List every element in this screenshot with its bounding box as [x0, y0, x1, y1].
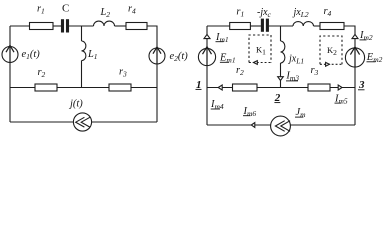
svg-text:r3: r3: [119, 67, 127, 79]
svg-text:r1: r1: [37, 4, 45, 16]
coupling arrow K1 (left): [249, 61, 271, 65]
wire r4 to corner: [344, 26, 355, 49]
svg-text:K1: K1: [256, 45, 266, 57]
label r1: [236, 6, 244, 18]
resistor r3: [308, 84, 330, 91]
wire bottom right: [92, 121, 157, 123]
resistor r1: [30, 23, 54, 30]
svg-text:r4: r4: [324, 6, 332, 18]
inductor jxL2: [293, 22, 314, 26]
svg-text:r2: r2: [236, 65, 244, 77]
inductor L2: [94, 21, 115, 26]
EMF source Em1: [198, 47, 215, 66]
svg-text:r3: r3: [311, 65, 319, 77]
label r3: [311, 65, 319, 77]
svg-text:e1(t): e1(t): [22, 49, 41, 61]
wire r1 to cap: [250, 25, 261, 27]
arrow Im1 (up): [204, 34, 210, 38]
EMF source Em2: [345, 47, 364, 67]
arrow Im2 (up): [352, 34, 358, 38]
wire r1 to C: [53, 25, 61, 27]
label r2: [38, 67, 46, 79]
svg-text:r1: r1: [236, 6, 244, 18]
node 1: [196, 79, 202, 91]
wire middle: r2 to node2 to r3: [257, 87, 308, 89]
wire L2 to r4: [314, 25, 321, 27]
arrow Im3 (down): [278, 77, 284, 81]
label r2: [236, 65, 244, 77]
svg-text:-jxc: -jxc: [257, 7, 272, 19]
label Im3: [285, 70, 299, 82]
label r4: [128, 4, 136, 16]
node 2: [274, 92, 281, 104]
voltage source e1: [2, 45, 18, 62]
current source Jm: [271, 116, 291, 136]
arrow Im4 (left) on middle wire: [218, 85, 222, 90]
resistor r1: [230, 23, 251, 30]
label Em2: [366, 52, 383, 64]
resistor r2: [233, 84, 258, 91]
node 3: [358, 79, 365, 91]
svg-text:jxL1: jxL1: [287, 54, 304, 66]
resistor r4: [320, 23, 344, 30]
svg-text:L2: L2: [100, 7, 111, 19]
label Im2: [359, 30, 373, 42]
wire left vertical top (e1 branch): [9, 26, 11, 47]
wire middle: node1 to arrow: [207, 87, 233, 89]
wire middle left: [10, 87, 35, 89]
label r4: [324, 6, 332, 18]
wire left vertical top: [206, 26, 208, 48]
label L1: [87, 49, 98, 61]
svg-text:C: C: [62, 3, 69, 15]
svg-text:jxL2: jxL2: [292, 7, 309, 19]
wire cap to L2 node: [269, 25, 293, 27]
svg-text:e2(t): e2(t): [170, 51, 189, 63]
coupling box K2: [320, 36, 342, 64]
svg-text:j(t): j(t): [68, 99, 83, 110]
capacitor -jxc: [262, 19, 267, 32]
wire left vertical bottom: [206, 66, 208, 125]
wire left vertical bottom: [9, 62, 11, 122]
resistor r2: [35, 84, 57, 91]
resistor r3: [109, 84, 131, 91]
wire middle: r3 to node3: [330, 87, 355, 89]
wire bottom left: [10, 121, 73, 123]
current source j(t): [73, 113, 91, 131]
label jxL1: [287, 54, 304, 66]
label Im6: [243, 106, 257, 118]
coupling arrow K2 (right): [320, 62, 342, 66]
inductor jxL1 (vertical branch): [281, 26, 285, 88]
capacitor C: [63, 19, 68, 32]
label K1: [256, 45, 266, 57]
label jxL2: [292, 7, 309, 19]
label C: [62, 3, 69, 15]
wire top: corner to r1: [207, 25, 230, 27]
resistor r4: [126, 23, 147, 30]
svg-text:r4: r4: [128, 4, 136, 16]
label j(t): [68, 99, 83, 110]
arrow Im6 (left) on bottom wire: [251, 123, 255, 128]
label K2: [327, 45, 337, 57]
label e1(t): [22, 49, 41, 61]
label Im5: [334, 93, 348, 105]
voltage source e2: [149, 47, 165, 64]
label L2: [100, 7, 111, 19]
wire top left: [10, 25, 30, 27]
wire bottom right: [290, 124, 355, 126]
coupling box K1: [249, 35, 271, 63]
wire middle right: [131, 87, 157, 89]
label Im1: [215, 32, 229, 44]
label e2(t): [170, 51, 189, 63]
svg-text:L1: L1: [87, 49, 98, 61]
wire right vertical bottom: [156, 64, 158, 122]
svg-text:r2: r2: [38, 67, 46, 79]
svg-text:K2: K2: [327, 45, 337, 57]
wire bottom left: [207, 124, 271, 126]
wire L2 to r4: [115, 25, 127, 27]
wire middle center: [57, 87, 109, 89]
label r3: [119, 67, 127, 79]
arrow Im5 (right) on middle wire: [338, 85, 342, 90]
wire top right corner: [147, 26, 157, 48]
wire right vertical bottom: [354, 67, 356, 125]
label -jxc: [257, 7, 272, 19]
label r1: [37, 4, 45, 16]
wire C to L2 with node for L1: [69, 25, 94, 27]
inductor L1 (vertical): [82, 26, 86, 88]
label Im4: [210, 99, 224, 111]
label Em1: [219, 52, 236, 64]
label Jm: [295, 107, 306, 119]
